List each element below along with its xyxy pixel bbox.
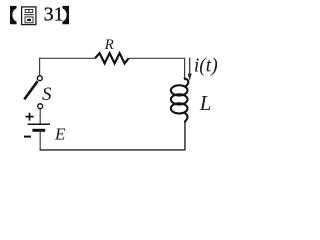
svg-text:i(t): i(t) <box>194 55 218 76</box>
svg-text:S: S <box>42 84 52 105</box>
figure title glyph 圖 <box>22 7 36 25</box>
wire top-right horizontal <box>129 57 185 59</box>
wire right vertical to inductor <box>184 58 186 80</box>
wire switch to battery <box>39 109 41 124</box>
switch S blade <box>24 81 37 99</box>
svg-text:R: R <box>104 37 114 53</box>
current arrow head <box>188 74 192 81</box>
figure title bracket right 】 <box>62 6 69 24</box>
switch S bottom terminal <box>38 104 43 109</box>
wire battery to bottom <box>39 130 41 150</box>
current arrow i(t) line <box>189 58 191 75</box>
battery negative plate <box>32 129 45 132</box>
svg-text:31: 31 <box>44 4 64 26</box>
battery minus sign <box>24 136 31 138</box>
wire top-left horizontal <box>39 57 95 59</box>
battery positive plate <box>28 123 50 125</box>
resistor R zigzag <box>95 53 129 63</box>
wire right vertical bottom <box>184 122 186 151</box>
battery plus sign <box>25 113 33 121</box>
wire bottom horizontal <box>40 149 185 151</box>
svg-text:E: E <box>54 125 66 144</box>
inductor L coil <box>171 79 188 122</box>
switch S top terminal <box>37 76 42 81</box>
wire left vertical to switch <box>39 58 41 76</box>
figure title bracket left 【 <box>10 6 17 24</box>
svg-text:L: L <box>199 91 212 115</box>
